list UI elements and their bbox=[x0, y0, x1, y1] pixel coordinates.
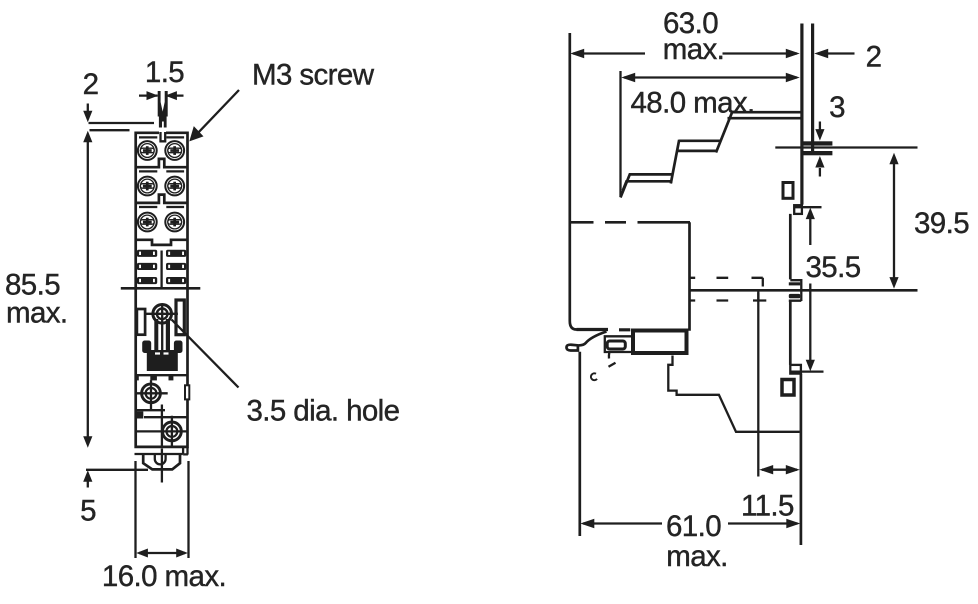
terminal slots bbox=[137, 250, 157, 257]
rail hook pocket bbox=[789, 280, 802, 301]
bottom tab inner arch bbox=[155, 455, 166, 465]
staircase lower lines bbox=[623, 118, 801, 190]
small square top bbox=[783, 183, 793, 199]
back profile notch bottom bbox=[790, 365, 801, 374]
right edge notch bbox=[185, 385, 189, 399]
dim 48.0 line with arrows bbox=[621, 73, 800, 82]
back edge mid bbox=[789, 214, 792, 280]
svg-text:5: 5 bbox=[80, 495, 96, 528]
svg-text:max.: max. bbox=[663, 33, 725, 66]
screws row3 bbox=[138, 213, 157, 232]
hidden dashes upper bbox=[689, 278, 763, 287]
inner line + black square bbox=[135, 409, 166, 411]
extension line tab bottom bbox=[86, 469, 148, 471]
divider 2 bbox=[137, 195, 187, 203]
dim 11.5 extension line bbox=[757, 291, 759, 477]
main body box right edge bbox=[688, 222, 691, 330]
screws row2 bbox=[138, 177, 157, 196]
back profile notch top bbox=[794, 205, 802, 214]
main body box top edge bbox=[571, 221, 690, 224]
svg-text:16.0 max.: 16.0 max. bbox=[102, 560, 226, 593]
bottom tab trapezoid bbox=[143, 455, 180, 470]
swing arc dashes bbox=[591, 373, 597, 380]
lower front profile bbox=[668, 356, 799, 432]
bottom center line bbox=[161, 449, 163, 483]
svg-text:3: 3 bbox=[829, 91, 845, 124]
dim 2 arrow bbox=[814, 49, 854, 58]
svg-text:max.: max. bbox=[666, 540, 728, 573]
rail hook bars bbox=[801, 141, 833, 145]
tab stem slit bbox=[162, 122, 164, 140]
dim 11.5 line with arrows bbox=[759, 465, 800, 474]
drip mark bbox=[608, 353, 611, 359]
release lever (black) bbox=[147, 350, 178, 371]
small square bottom bbox=[782, 380, 794, 396]
section line bbox=[121, 287, 201, 290]
48.0 extension line / relay front bbox=[619, 71, 621, 197]
dim 3 arrows bbox=[815, 122, 824, 177]
tab stem shoulder bbox=[159, 116, 167, 128]
body outline bbox=[136, 133, 188, 447]
svg-text:2: 2 bbox=[83, 68, 99, 101]
extension line tab shoulder bbox=[89, 122, 155, 124]
svg-text:M3 screw: M3 screw bbox=[252, 59, 375, 92]
dim 85.5 vertical line with arrows bbox=[83, 131, 92, 448]
dim 61.0 line with arrows bbox=[580, 519, 800, 528]
front beak bbox=[567, 332, 607, 351]
side tabs bbox=[142, 341, 151, 354]
dim 35.5 top arrow bbox=[795, 207, 822, 245]
tab slit inside body bbox=[161, 132, 166, 141]
center line lower bbox=[161, 405, 163, 448]
row1 inner ledge bbox=[139, 136, 184, 138]
svg-text:11.5: 11.5 bbox=[741, 490, 794, 523]
dim 63.0 line with arrows bbox=[570, 49, 800, 58]
dim 16.0 extension lines bbox=[136, 461, 189, 558]
dim 16.0 line with arrows bbox=[136, 549, 188, 558]
base strip bbox=[135, 447, 188, 455]
dim 35.5 bottom arrow bbox=[790, 284, 824, 372]
right slot outline bbox=[176, 300, 184, 335]
panel plate lines bbox=[802, 24, 813, 205]
latch housing bbox=[605, 336, 632, 352]
extension line body top bbox=[90, 129, 130, 131]
dim 61.0 left extension bbox=[578, 352, 581, 536]
hole 3.5 dia (crosshair) bbox=[146, 304, 178, 351]
divider under lever bbox=[137, 374, 188, 376]
long line at relay base bbox=[690, 289, 918, 292]
svg-text:3.5 dia. hole: 3.5 dia. hole bbox=[247, 395, 400, 428]
svg-text:39.5: 39.5 bbox=[914, 207, 969, 240]
dim 5 up arrow bbox=[83, 470, 92, 487]
leader M3 screw bbox=[189, 90, 239, 141]
screws row1 bbox=[138, 141, 157, 160]
left extension line bbox=[570, 33, 577, 330]
dim 1.5 arrows bbox=[139, 91, 184, 100]
slot center line bbox=[160, 251, 162, 288]
rail line bbox=[775, 146, 917, 148]
back edge lower bbox=[789, 301, 792, 365]
dim 39.5 line with arrows bbox=[889, 153, 898, 289]
back edge bottom / right extension bbox=[800, 374, 803, 545]
left slot outline bbox=[137, 309, 145, 335]
latch bbox=[607, 341, 625, 349]
svg-text:48.0 max.: 48.0 max. bbox=[631, 87, 755, 120]
svg-text:2: 2 bbox=[866, 41, 882, 74]
svg-text:max.: max. bbox=[6, 297, 68, 330]
divider 1 bbox=[137, 159, 187, 167]
staircase relay profile upper bbox=[621, 111, 801, 197]
terminal block (thick box) bbox=[633, 331, 687, 354]
divider 3 bbox=[137, 240, 187, 245]
svg-text:61.0: 61.0 bbox=[666, 510, 721, 543]
hidden dashes lower bbox=[689, 293, 767, 301]
top mounting tab (fork) bbox=[158, 91, 168, 117]
prongs under hole bbox=[154, 319, 158, 350]
main body box bottom edge bbox=[577, 328, 631, 331]
svg-text:1.5: 1.5 bbox=[145, 56, 184, 89]
leader 3.5 dia. hole bbox=[172, 320, 239, 388]
dim 2 down arrow bbox=[83, 104, 92, 123]
hole 2 (crosshair) bbox=[135, 380, 167, 411]
svg-text:35.5: 35.5 bbox=[806, 251, 861, 284]
hole 3 (crosshair) bbox=[135, 416, 189, 448]
